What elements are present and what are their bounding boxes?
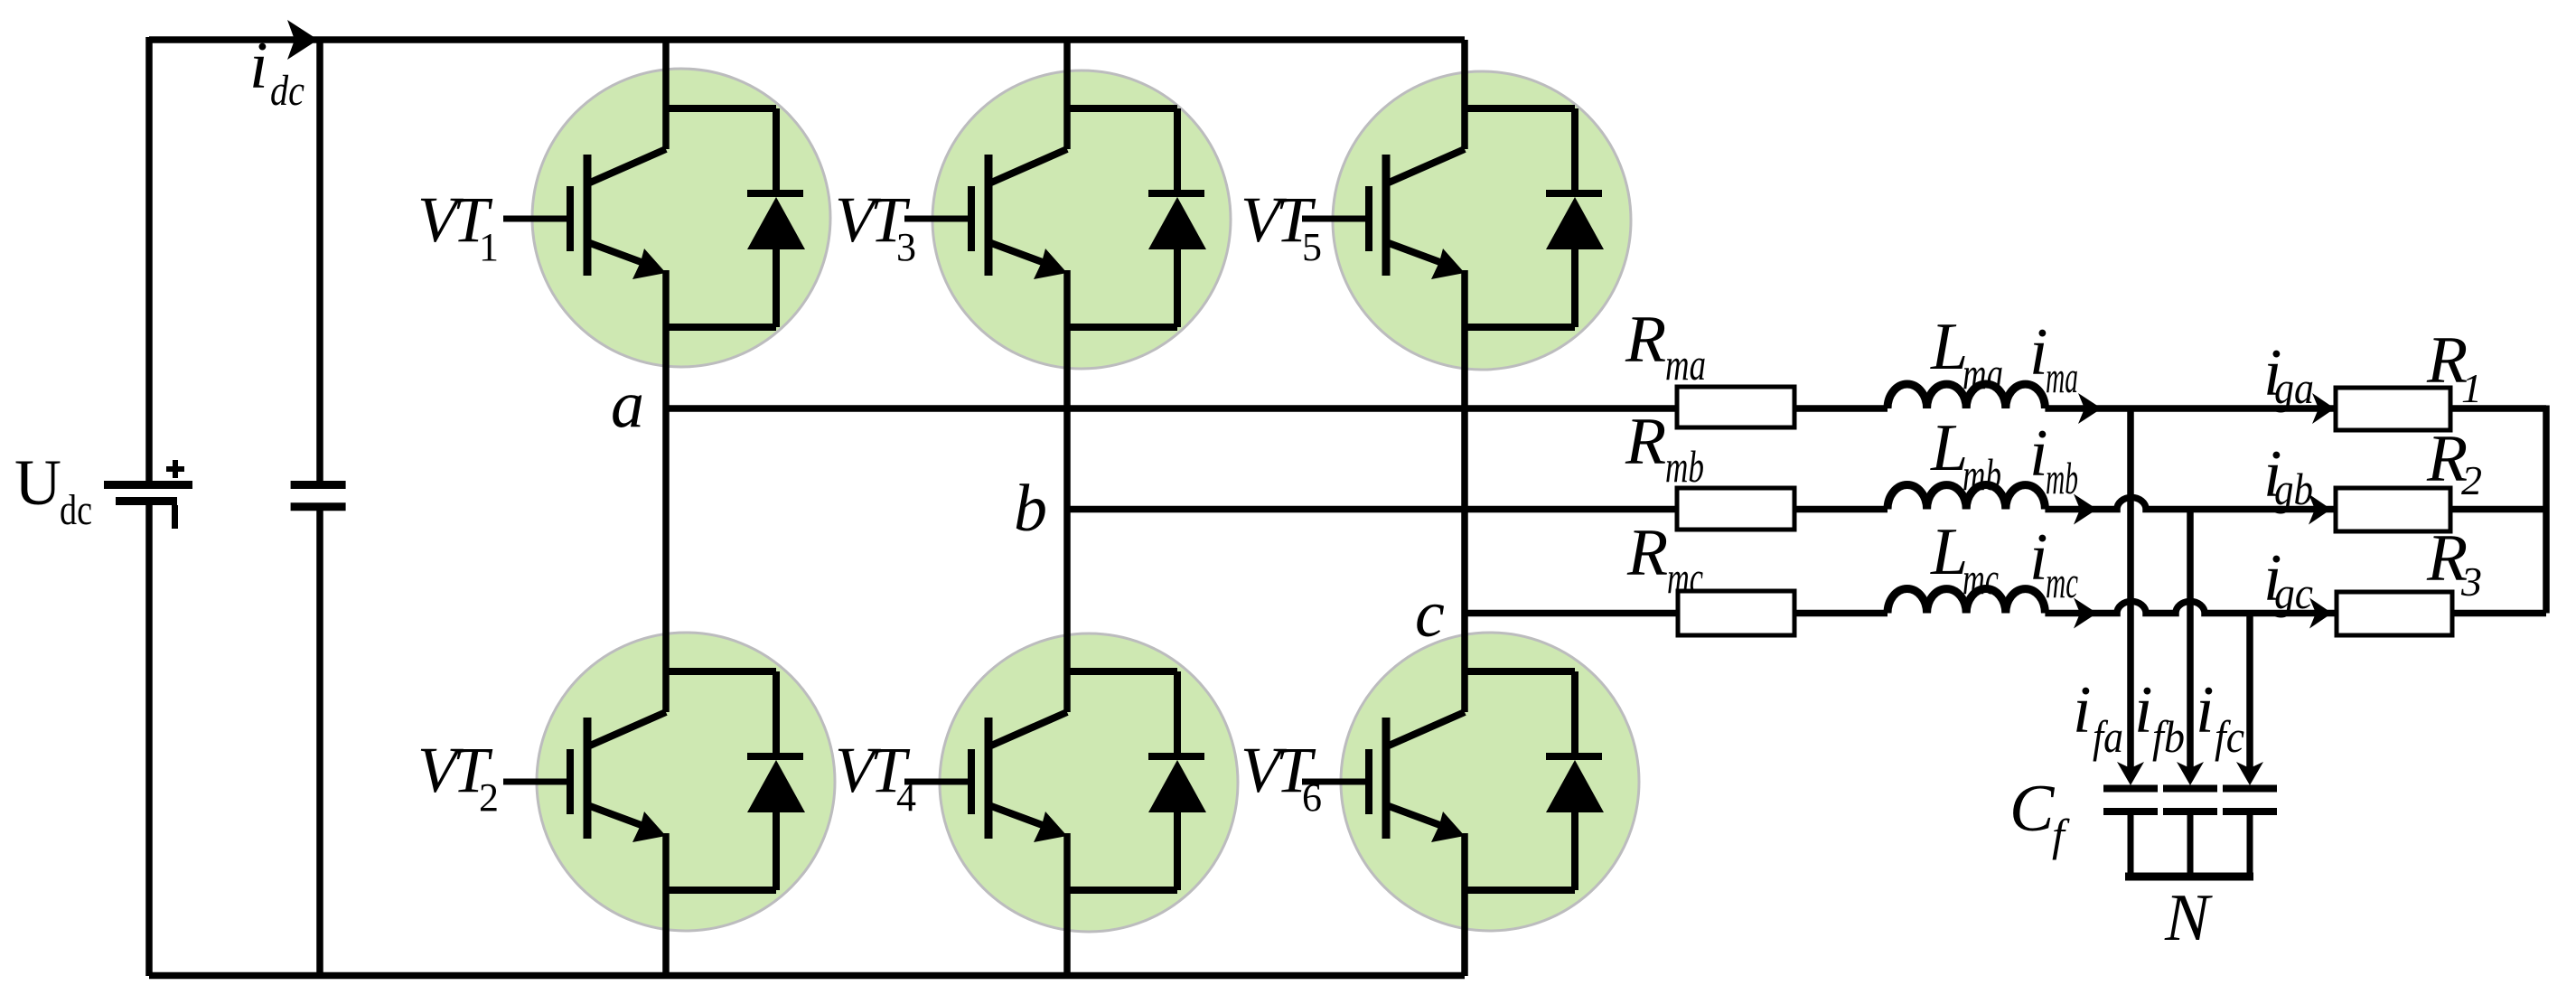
wire phase leg b vertical bbox=[1063, 40, 1071, 976]
svg-text:c: c bbox=[1415, 577, 1445, 652]
wire row b: R2 to right bus bbox=[2450, 506, 2546, 513]
battery minus mark bbox=[172, 505, 178, 529]
svg-text:dc: dc bbox=[270, 67, 304, 115]
resistor R1 bbox=[2336, 388, 2450, 430]
transistor VT2 (IGBT symbol with diode) bbox=[503, 671, 805, 890]
svg-text:3: 3 bbox=[896, 225, 916, 269]
wire right bus vertical bbox=[2543, 406, 2550, 614]
arrow idc on top bus bbox=[287, 20, 318, 60]
svg-text:R: R bbox=[1625, 405, 1666, 479]
transistor VT5 green circle bbox=[1333, 71, 1631, 370]
svg-text:R: R bbox=[1625, 303, 1666, 377]
neutral bar N bbox=[2125, 873, 2253, 881]
transistor VT5 (IGBT symbol with diode) bbox=[1302, 108, 1604, 327]
wire phase leg c vertical bbox=[1461, 40, 1468, 976]
battery Udc bottom plate bbox=[116, 497, 177, 505]
svg-text:3: 3 bbox=[2460, 558, 2482, 605]
svg-text:fb: fb bbox=[2152, 711, 2185, 762]
svg-text:4: 4 bbox=[896, 775, 916, 820]
svg-text:gb: gb bbox=[2274, 464, 2313, 514]
svg-text:ma: ma bbox=[1962, 348, 2003, 399]
wire row a: Lma to R1 bbox=[2045, 405, 2336, 412]
wire filter column fc bbox=[2246, 614, 2253, 771]
transistor VT6 green circle bbox=[1341, 633, 1639, 931]
battery plus mark bbox=[166, 460, 184, 478]
transistor VT4 (IGBT symbol with diode) bbox=[904, 671, 1206, 890]
svg-text:i: i bbox=[2196, 673, 2215, 747]
resistor Rmb bbox=[1677, 488, 1794, 530]
svg-text:i: i bbox=[2073, 673, 2092, 747]
svg-text:mb: mb bbox=[1962, 449, 2001, 500]
svg-text:2: 2 bbox=[2461, 457, 2482, 503]
svg-text:i: i bbox=[2134, 673, 2153, 747]
filter capacitor Cf phase a plates bbox=[2103, 789, 2158, 812]
arrow igb bbox=[2309, 494, 2331, 525]
wire row a: R1 to right bus bbox=[2450, 405, 2546, 412]
battery Udc top plate bbox=[104, 481, 192, 489]
wire row b: Rmb to Lmb bbox=[1794, 506, 1888, 513]
svg-text:1: 1 bbox=[2461, 365, 2482, 411]
arrow iga bbox=[2312, 393, 2335, 424]
capacitor DC-link top plate bbox=[291, 481, 346, 489]
filter capacitor Cf phase c plates bbox=[2223, 789, 2277, 812]
wire row b: node b to Rmb bbox=[1067, 506, 1677, 513]
svg-text:ma: ma bbox=[2046, 352, 2078, 402]
svg-text:C: C bbox=[2009, 772, 2056, 846]
svg-text:R: R bbox=[1626, 516, 1668, 590]
wire phase leg a vertical bbox=[662, 40, 670, 976]
wire capacitor bottom leads to neutral bar bbox=[2131, 812, 2250, 877]
svg-text:2: 2 bbox=[479, 775, 499, 820]
svg-text:mb: mb bbox=[1665, 441, 1704, 492]
wire row c: R3 to right bus bbox=[2452, 610, 2546, 617]
svg-text:gc: gc bbox=[2274, 568, 2313, 618]
resistor Rmc bbox=[1678, 591, 1794, 635]
arrow igc bbox=[2309, 598, 2332, 629]
inductor Lmb bbox=[1888, 484, 2045, 509]
svg-text:i: i bbox=[249, 29, 268, 103]
svg-text:mb: mb bbox=[2046, 453, 2078, 503]
svg-text:b: b bbox=[1014, 472, 1047, 546]
wire DC-link capacitor branch bbox=[316, 40, 323, 976]
transistor VT1 (IGBT symbol with diode) bbox=[503, 108, 805, 327]
transistor VT3 (IGBT symbol with diode) bbox=[904, 108, 1206, 327]
wire filter column fb bbox=[2187, 510, 2194, 771]
wire row c with hops over fa and fb columns bbox=[2045, 602, 2337, 614]
capacitor DC-link bottom plate bbox=[291, 502, 346, 511]
wire bottom DC bus bbox=[149, 972, 1465, 980]
arrow ifb down bbox=[2177, 762, 2204, 785]
svg-text:ga: ga bbox=[2274, 362, 2314, 413]
wire filter column fa bbox=[2127, 408, 2134, 770]
svg-text:N: N bbox=[2164, 881, 2213, 955]
svg-text:fc: fc bbox=[2215, 711, 2244, 762]
arrow imb bbox=[2074, 494, 2097, 525]
filter capacitor Cf phase b plates bbox=[2163, 789, 2217, 812]
wire row a: node a to Rma bbox=[666, 405, 1677, 412]
svg-text:mc: mc bbox=[1962, 553, 1999, 604]
wire row b with hop over fa column bbox=[2045, 498, 2336, 510]
wire top DC bus bbox=[149, 36, 1465, 43]
transistor VT2 green circle bbox=[537, 633, 835, 931]
resistor R2 bbox=[2336, 488, 2450, 531]
arrow ima bbox=[2078, 393, 2102, 424]
svg-text:fa: fa bbox=[2093, 711, 2123, 762]
transistor VT4 green circle bbox=[940, 633, 1238, 932]
arrow ifc down bbox=[2236, 762, 2263, 785]
wire left DC vertical (battery branch) bbox=[145, 37, 153, 976]
arrow ifa down bbox=[2117, 762, 2144, 785]
svg-text:6: 6 bbox=[1302, 775, 1322, 820]
svg-text:U: U bbox=[14, 446, 61, 519]
wire row c: node c to Rmc bbox=[1465, 610, 1678, 617]
svg-text:mc: mc bbox=[2046, 557, 2078, 607]
inductor Lmc bbox=[1888, 588, 2045, 613]
wire row a: Rma to Lma bbox=[1794, 405, 1888, 412]
resistor R3 bbox=[2337, 592, 2452, 635]
inductor Lma bbox=[1888, 384, 2045, 408]
svg-text:5: 5 bbox=[1302, 225, 1322, 269]
arrow imc bbox=[2074, 598, 2097, 629]
svg-text:ma: ma bbox=[1665, 339, 1706, 389]
svg-text:dc: dc bbox=[60, 486, 92, 534]
svg-text:a: a bbox=[611, 368, 644, 442]
transistor VT3 green circle bbox=[932, 70, 1231, 369]
resistor Rma bbox=[1677, 387, 1794, 427]
svg-text:mc: mc bbox=[1667, 552, 1703, 603]
transistor VT1 green circle bbox=[532, 69, 830, 367]
svg-text:1: 1 bbox=[479, 225, 499, 269]
transistor VT6 (IGBT symbol with diode) bbox=[1302, 671, 1604, 890]
wire row c: Rmc to Lmc bbox=[1794, 610, 1888, 617]
